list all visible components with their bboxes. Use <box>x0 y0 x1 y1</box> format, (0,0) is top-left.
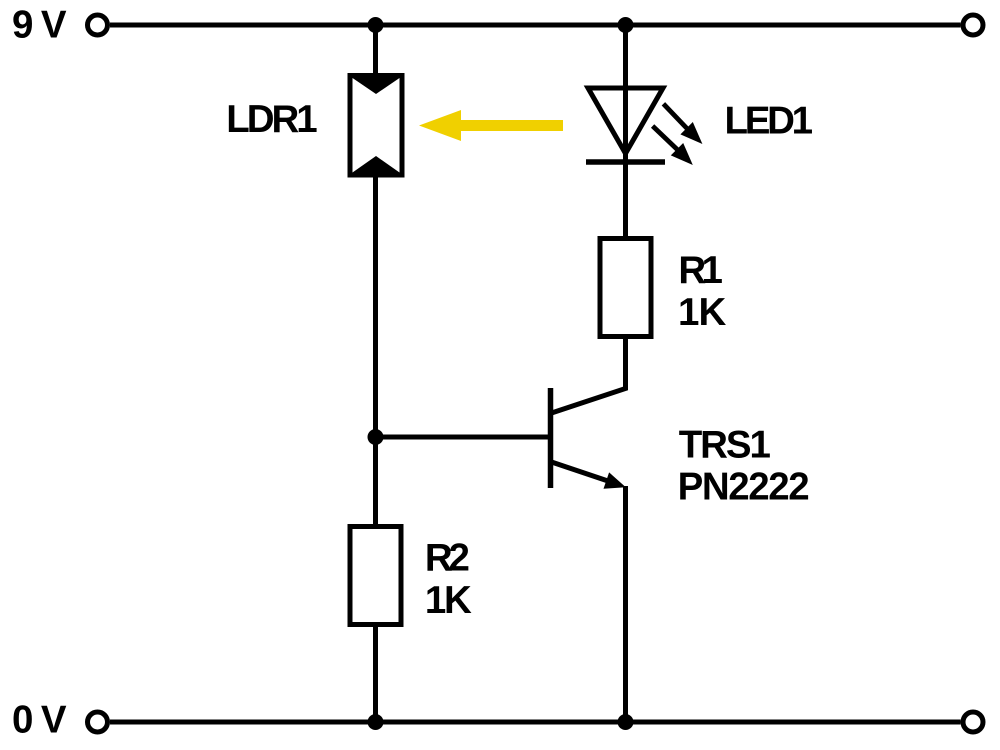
terminal bottom-left <box>88 712 108 732</box>
photoresistor LDR1 <box>350 76 402 176</box>
junction bottom R2 branch <box>368 714 384 730</box>
wire base node to TRS1 base <box>376 435 549 440</box>
wire top rail <box>110 23 961 28</box>
junction base node <box>368 429 384 445</box>
svg-text:9 V: 9 V <box>12 3 67 46</box>
svg-text:R2: R2 <box>425 536 470 579</box>
wire 9V rail to LDR1 <box>373 25 378 76</box>
wire 9V rail to LED1 <box>623 25 628 164</box>
LED LED1 <box>586 88 702 165</box>
junction bottom emitter branch <box>618 714 634 730</box>
svg-text:1K: 1K <box>425 579 472 622</box>
svg-text:1K: 1K <box>678 291 726 334</box>
terminal top-left <box>88 15 108 35</box>
svg-text:0 V: 0 V <box>12 698 67 741</box>
wire R2 to 0V rail <box>373 625 378 723</box>
svg-text:R1: R1 <box>678 249 723 292</box>
resistor R2 <box>350 527 401 625</box>
transistor TRS1 <box>551 388 626 489</box>
svg-text:LDR1: LDR1 <box>226 98 318 141</box>
junction top LDR branch <box>368 17 384 33</box>
junction top LED branch <box>618 17 634 33</box>
wire TRS1 emitter to 0V rail <box>623 486 628 722</box>
svg-text:LED1: LED1 <box>725 100 814 143</box>
svg-text:TRS1: TRS1 <box>679 424 771 467</box>
wire LED1 to R1 <box>623 164 628 238</box>
wire LDR1 to base node <box>373 175 378 437</box>
light arrow onto LDR1 <box>419 110 563 141</box>
terminal top-right <box>963 15 983 35</box>
resistor R1 <box>600 239 651 337</box>
wire base node to R2 <box>373 437 378 526</box>
wire R1 to TRS1 collector <box>552 337 626 414</box>
terminal bottom-right <box>963 712 983 732</box>
wire bottom rail <box>110 720 961 725</box>
svg-text:PN2222: PN2222 <box>678 465 810 508</box>
